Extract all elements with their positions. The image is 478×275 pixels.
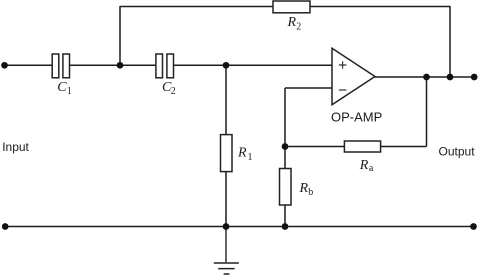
wire op-amp output line bbox=[375, 76, 474, 78]
wire bottom rail bbox=[5, 226, 474, 228]
svg-text:R: R bbox=[359, 158, 369, 173]
wire op-amp inverting input stub bbox=[285, 87, 332, 89]
wire input line left of C1 bbox=[5, 64, 52, 66]
wire Rb to bottom rail bbox=[284, 205, 286, 227]
node Rb bottom junction bbox=[282, 223, 289, 230]
capacitor C1 bbox=[52, 54, 72, 97]
svg-text:1: 1 bbox=[67, 86, 72, 97]
wire from C2 to op-amp + input bbox=[174, 64, 332, 66]
svg-text:R: R bbox=[299, 181, 309, 196]
svg-text:Output: Output bbox=[439, 145, 476, 159]
node junction top riser bbox=[117, 62, 124, 69]
svg-text:Input: Input bbox=[2, 140, 29, 154]
resistor Ra bbox=[344, 141, 380, 174]
resistor Rb bbox=[280, 169, 314, 206]
node A (C2 / R1 junction) bbox=[223, 62, 230, 69]
wire feedback riser from output node down to Ra bbox=[426, 77, 428, 147]
resistor R2 bbox=[273, 1, 310, 33]
wire Ra to feedback riser bbox=[381, 146, 427, 148]
wire riser from node B to inverting input bbox=[284, 88, 286, 147]
op-amp U1 bbox=[331, 48, 382, 124]
node output / Ra junction bbox=[423, 74, 430, 81]
node ground junction bbox=[223, 223, 230, 230]
node output terminal bbox=[471, 74, 478, 81]
wire node B to Ra bbox=[285, 146, 344, 148]
svg-text:OP-AMP: OP-AMP bbox=[331, 109, 382, 124]
svg-text:2: 2 bbox=[171, 86, 176, 97]
svg-text:R: R bbox=[287, 15, 297, 30]
node bottom-right terminal bbox=[470, 223, 477, 230]
wire between C1 and C2 bbox=[70, 64, 156, 66]
capacitor C2 bbox=[156, 54, 176, 97]
wire top feedback rail right segment bbox=[310, 6, 450, 8]
svg-text:R: R bbox=[237, 146, 247, 161]
wire from R1 to bottom rail bbox=[225, 172, 227, 227]
svg-text:b: b bbox=[308, 187, 313, 198]
svg-text:2: 2 bbox=[296, 22, 301, 33]
wire riser from input node to top rail bbox=[119, 6, 121, 65]
resistor R1 bbox=[221, 135, 253, 172]
node B (Ra / Rb / inverting input) bbox=[282, 143, 289, 150]
node bottom-left terminal bbox=[2, 223, 9, 230]
wire drop from top rail to output line bbox=[449, 6, 451, 77]
svg-text:1: 1 bbox=[248, 152, 253, 163]
wire from node A down to R1 bbox=[225, 65, 227, 134]
ground bbox=[214, 227, 239, 274]
svg-text:C: C bbox=[57, 80, 67, 95]
node output / R2 junction bbox=[447, 74, 454, 81]
node input terminal bbox=[1, 62, 8, 69]
wire node B down to Rb bbox=[284, 147, 286, 169]
svg-text:a: a bbox=[369, 163, 374, 174]
wire top feedback rail left segment bbox=[120, 6, 273, 8]
